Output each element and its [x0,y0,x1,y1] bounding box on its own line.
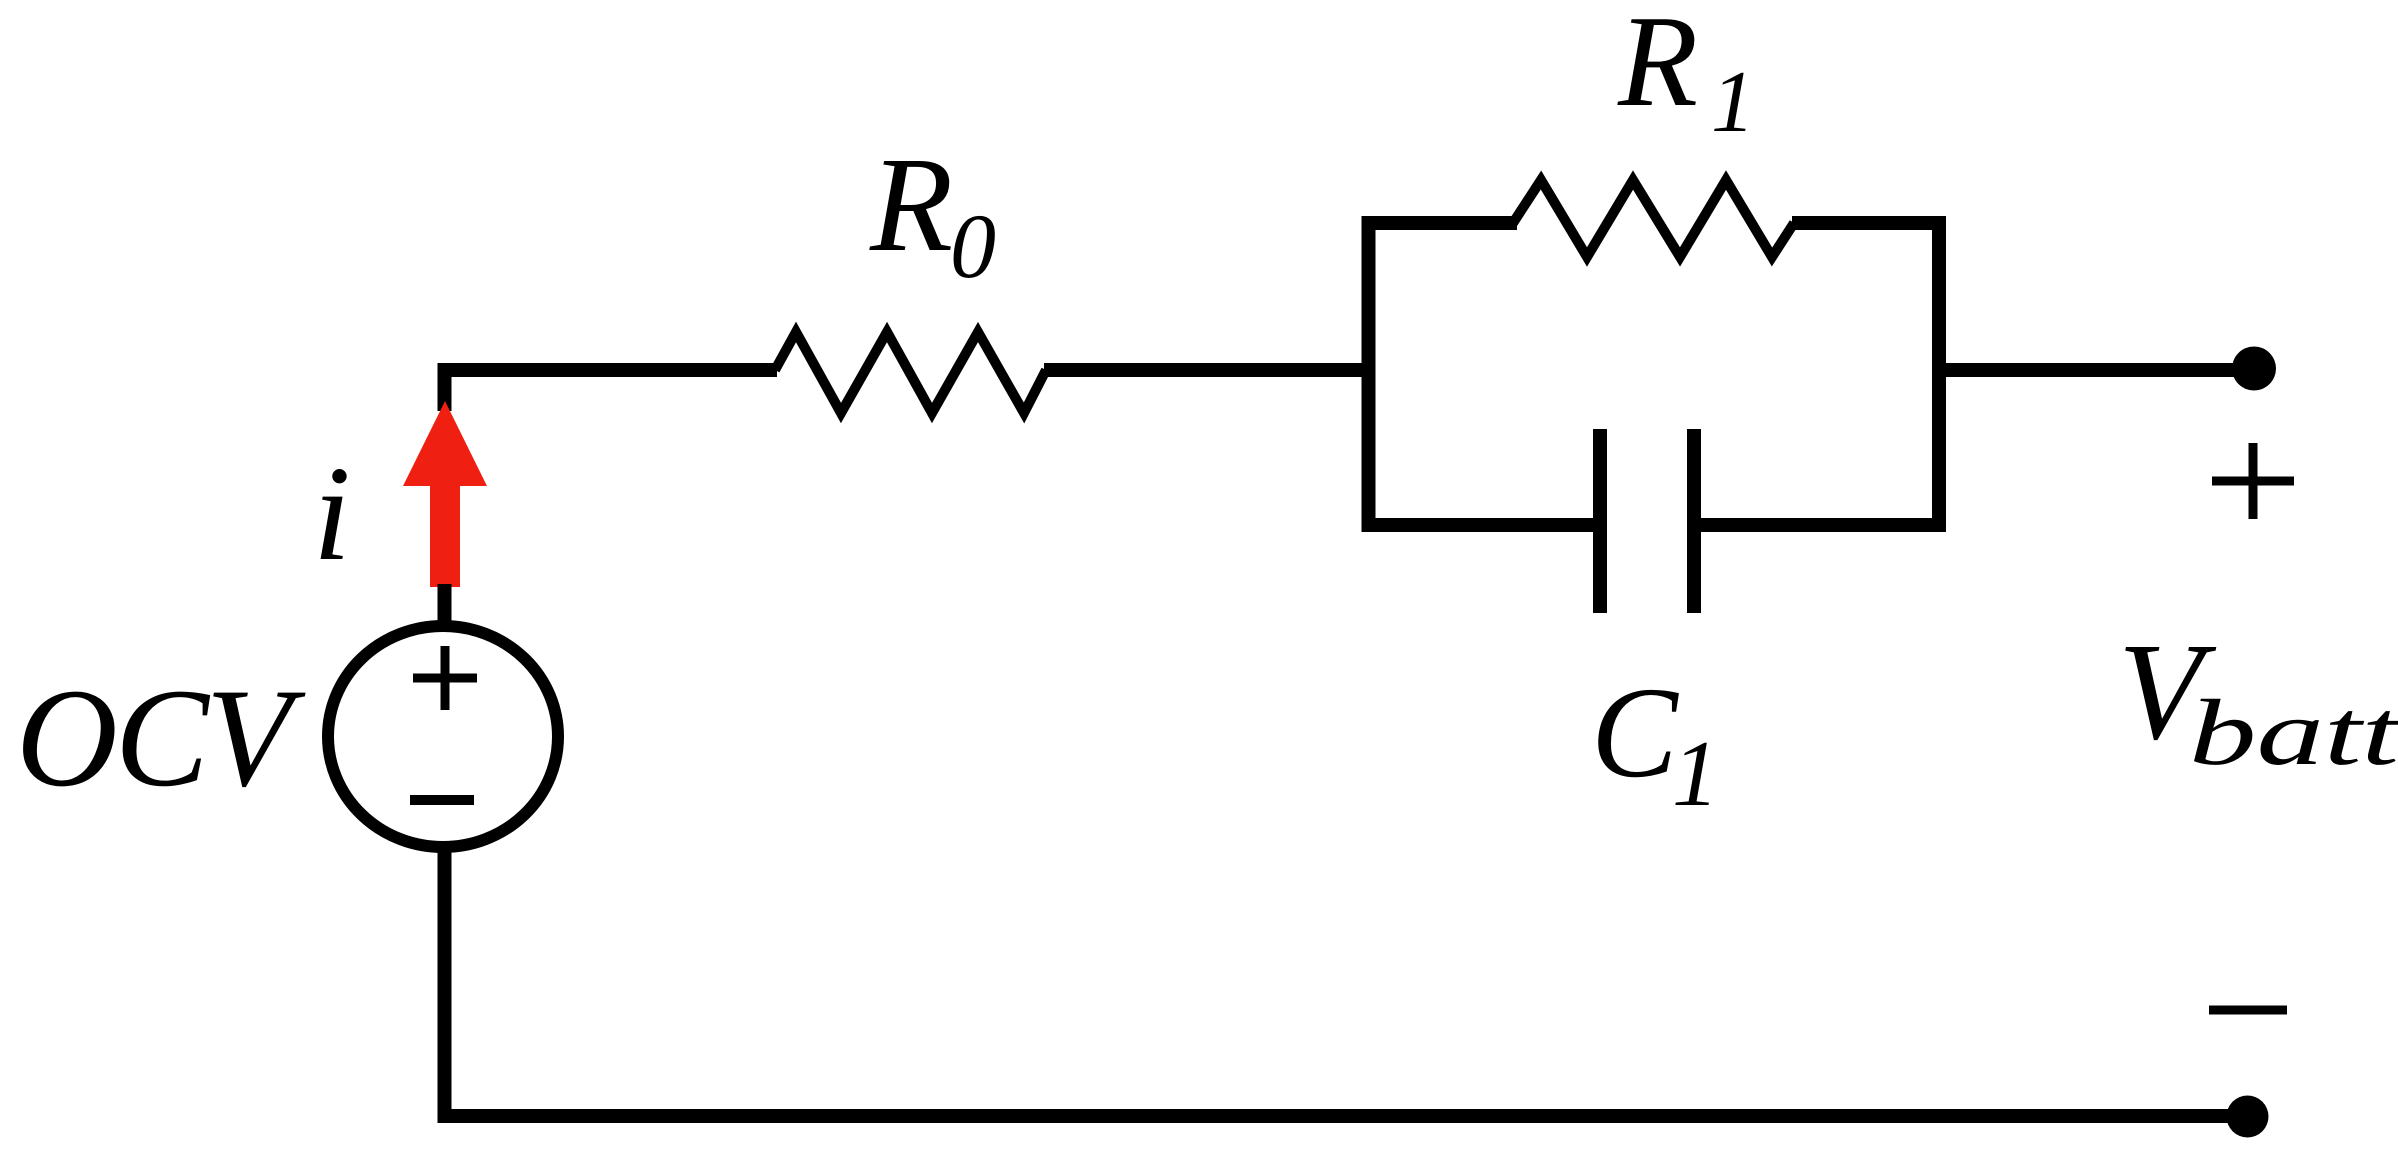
resistor R0 [775,332,1046,413]
svg-text:0: 0 [950,195,996,297]
plus sign at positive terminal [2212,443,2294,519]
resistor R1 [1513,180,1794,257]
parallel block right vertical wire [1932,216,1946,532]
capacitor C1 left plate [1593,429,1607,613]
capacitor C1 right plate [1687,429,1701,613]
voltage source OCV circle [328,626,558,847]
wire R0 to parallel block [1044,363,1375,377]
bottom branch wire right of C1 [1701,518,1946,532]
wire stub above current arrow [438,363,452,411]
top branch wire left of R1 [1362,216,1518,230]
svg-text:C: C [1591,661,1679,805]
svg-text:R: R [1617,0,1698,134]
parallel block left vertical wire [1362,216,1376,532]
node dot negative terminal [2227,1096,2269,1138]
minus sign inside source [410,795,474,805]
minus sign at negative terminal [2209,1006,2287,1015]
left vertical wire from source bottom to return wire [438,850,452,1123]
svg-text:OCV: OCV [16,660,306,816]
wire stub below arrow to source top [438,584,452,625]
wire top-left horizontal (node above source to R0) [438,363,778,377]
svg-text:i: i [313,439,351,589]
bottom return wire [438,1109,2248,1123]
svg-text:1: 1 [1672,722,1719,826]
bottom branch wire left of C1 [1362,518,1594,532]
plus sign inside source [413,646,477,710]
wire parallel block to positive terminal [1939,363,2254,377]
top branch wire right of R1 [1792,216,1946,230]
current arrow i (red) [403,401,487,587]
node dot positive terminal [2232,347,2276,391]
svg-text:R: R [869,130,953,280]
svg-text:batt: batt [2189,681,2398,785]
svg-text:1: 1 [1711,54,1755,151]
